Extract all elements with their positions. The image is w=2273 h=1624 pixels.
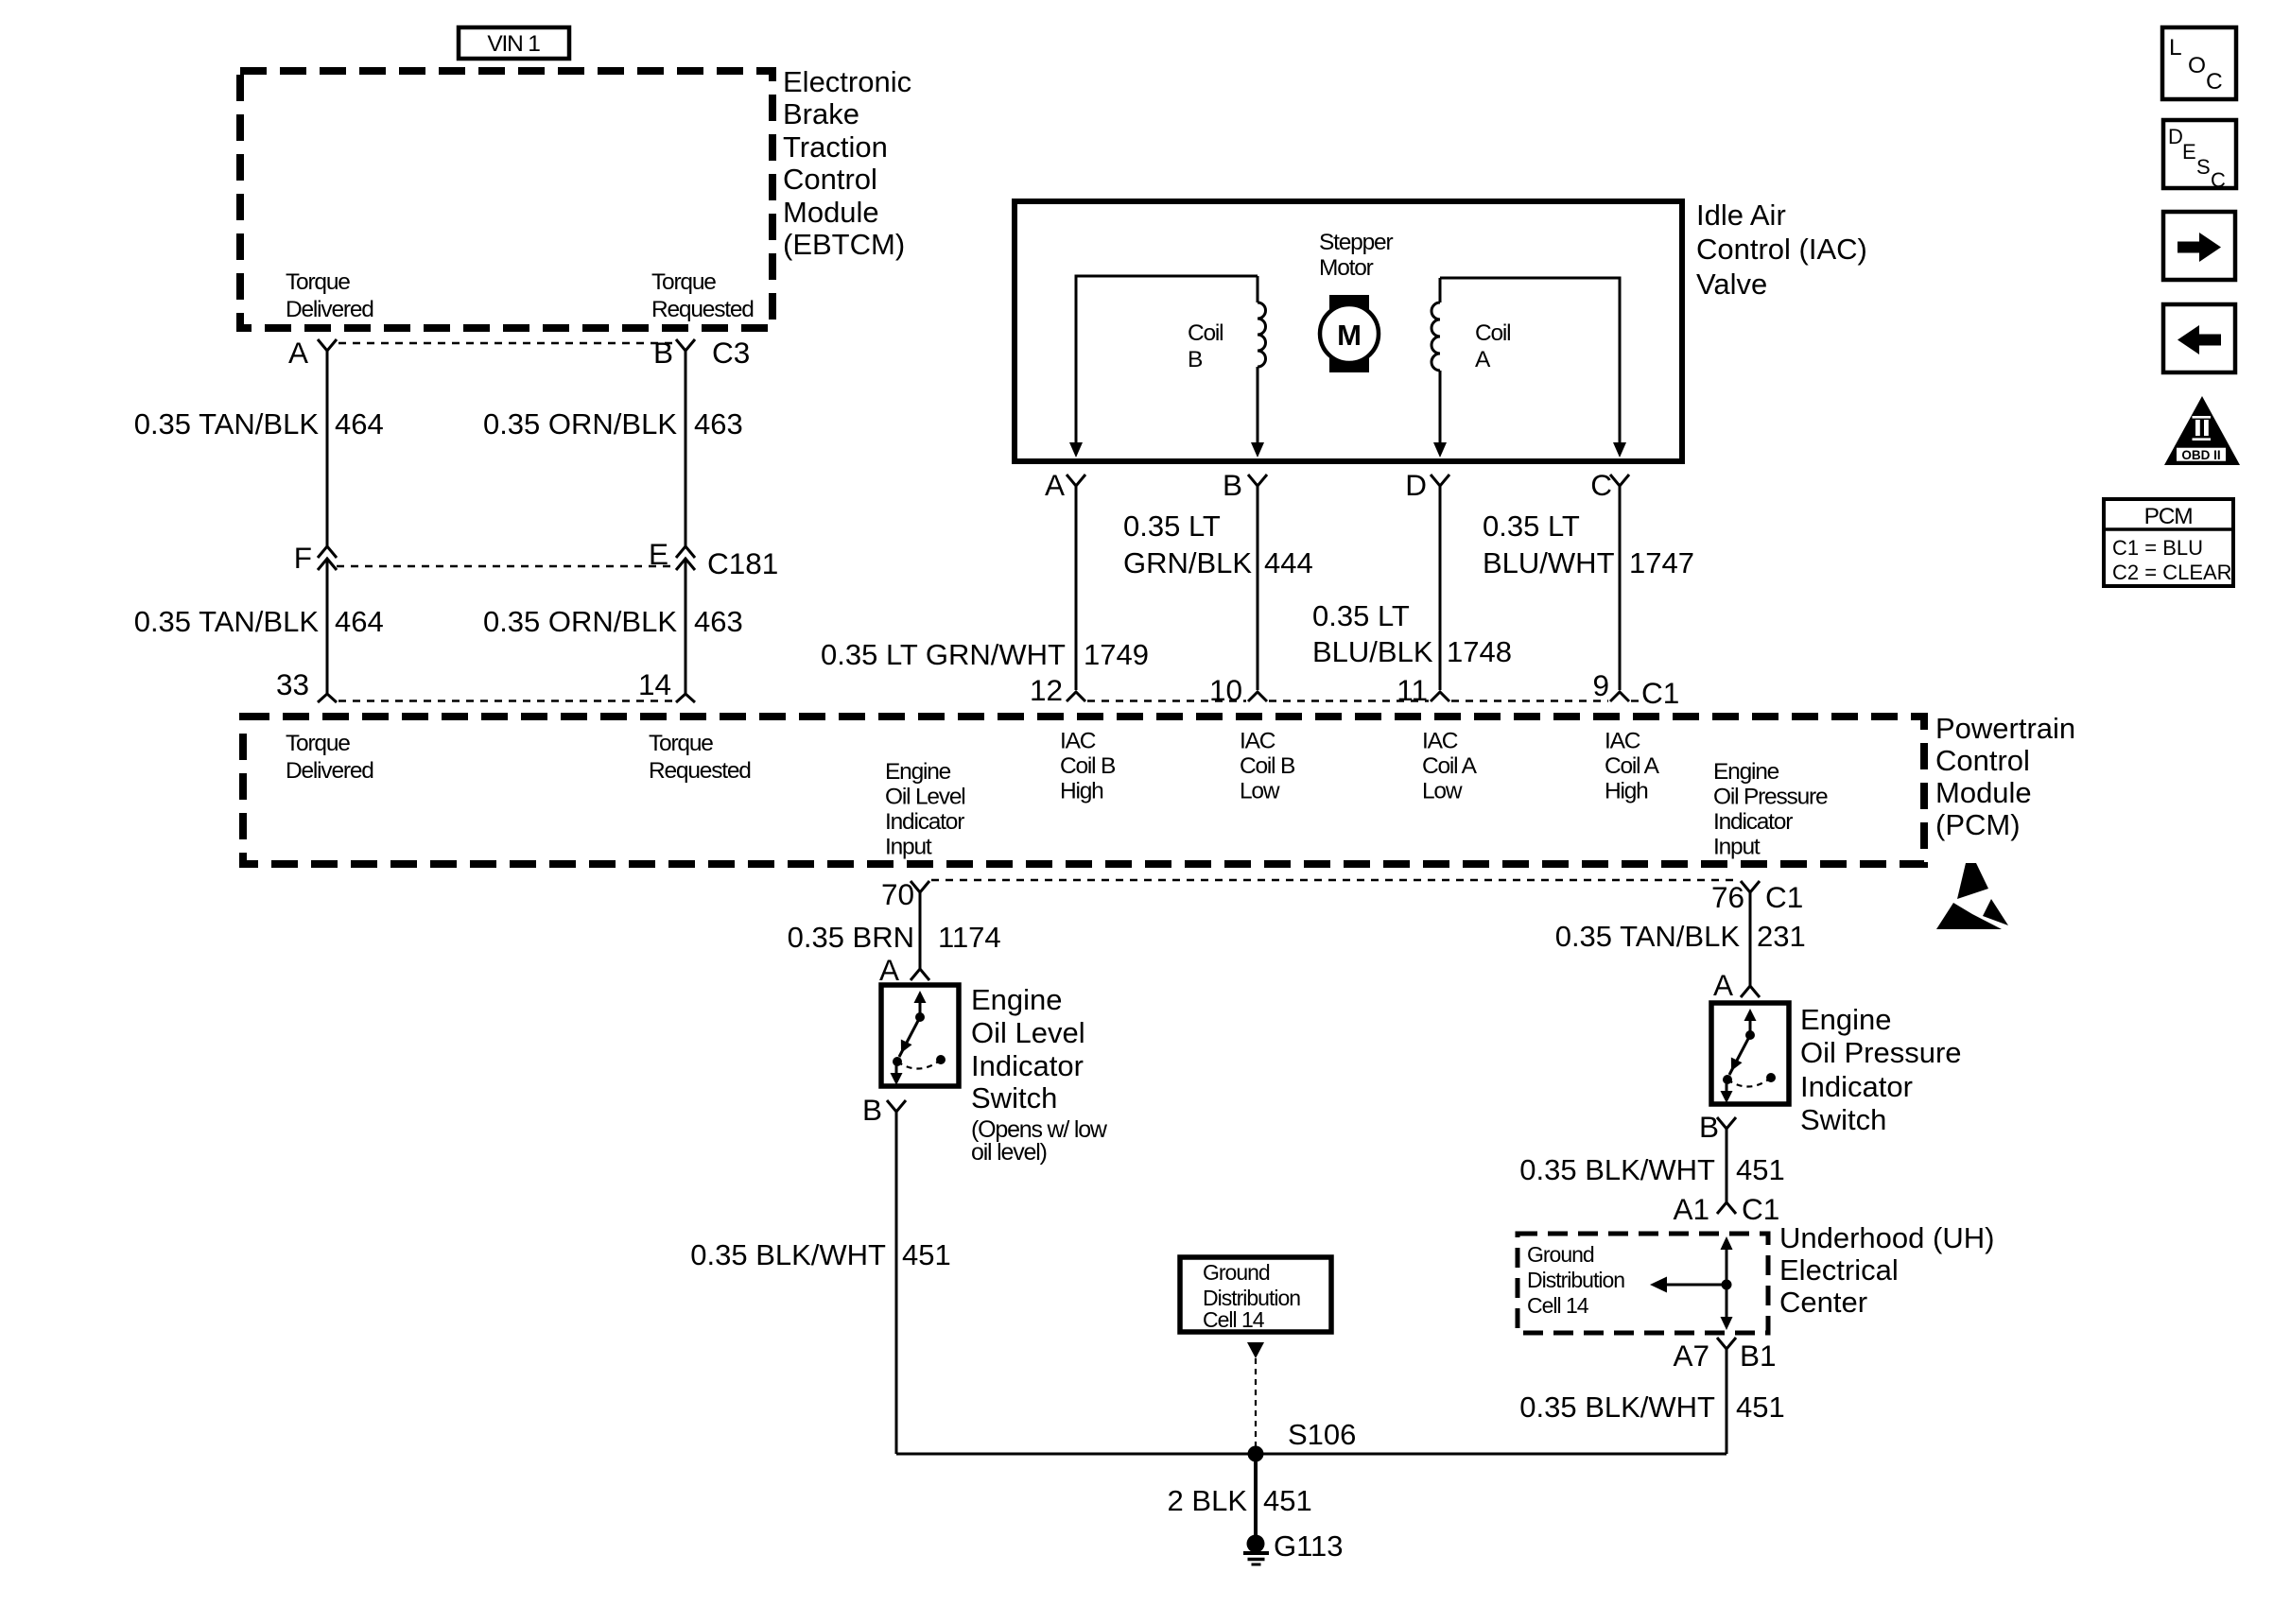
svg-text:Coil: Coil [1188,320,1223,346]
svg-text:463: 463 [694,605,743,638]
wire 451 from left switch [895,1112,898,1454]
svg-text:Module: Module [1935,776,2032,809]
svg-text:Coil B: Coil B [1240,753,1295,779]
svg-text:Torque: Torque [649,731,713,756]
svg-text:Ground: Ground [1203,1260,1270,1285]
svg-text:IAC: IAC [1605,729,1640,754]
svg-text:Input: Input [1713,835,1761,860]
svg-text:C1: C1 [1765,880,1803,914]
svg-text:C: C [2206,69,2222,95]
svg-text:10: 10 [1209,673,1242,707]
PCM C1 connector face line [931,879,1739,881]
wire IAC A to PCM 12 [1075,486,1078,690]
svg-text:451: 451 [1736,1391,1785,1424]
PCM pin 14 connector [638,667,695,702]
svg-text:Requested: Requested [651,297,754,322]
svg-text:1748: 1748 [1447,635,1512,668]
svg-text:Switch: Switch [971,1081,1057,1114]
wire label 0.35 LT GRN/WHT 1749 [821,638,1149,671]
svg-text:M: M [1337,319,1362,352]
PCM pin 12 connector [1030,673,1085,707]
svg-text:A: A [879,953,899,987]
svg-text:Engine: Engine [971,983,1063,1016]
svg-text:1747: 1747 [1629,546,1694,579]
svg-text:B: B [1188,347,1203,372]
svg-text:C: C [1590,468,1612,502]
PCM label [1935,712,2075,841]
svg-text:High: High [1060,779,1103,804]
svg-text:VIN 1: VIN 1 [487,31,540,57]
ESD sensitive symbol [1936,863,2008,929]
svg-text:33: 33 [276,667,309,701]
svg-text:Torque: Torque [651,269,716,295]
inline connector C181 pin E [649,537,778,580]
PCM module dashed box [243,717,1924,864]
svg-text:C3: C3 [712,336,750,370]
svg-text:Indicator: Indicator [1713,809,1793,835]
EBTCM pin function label Torque Requested [651,269,754,322]
wire 463 upper segment [685,351,687,546]
wire 1174 [919,892,922,969]
svg-text:11: 11 [1397,673,1428,707]
PCM pin label IAC Coil B Low [1240,729,1295,804]
wire label 0.35 BLK/WHT 451 right upper [1519,1153,1784,1186]
wire 463 lower segment [685,559,687,694]
svg-text:Input: Input [885,835,932,860]
arrow from ground distribution box [1247,1342,1264,1358]
wire label 0.35 LT BLU/WHT 1747 [1483,510,1694,579]
EBTCM pin function label Torque Delivered [286,269,373,322]
svg-text:Electrical: Electrical [1779,1253,1899,1287]
svg-text:IAC: IAC [1422,729,1458,754]
Stepper Motor label [1319,230,1393,281]
wire 451 from right switch [1726,1129,1728,1202]
svg-text:0.35 TAN/BLK: 0.35 TAN/BLK [134,605,320,638]
svg-text:Stepper: Stepper [1319,230,1393,255]
svg-text:Engine: Engine [885,759,951,785]
svg-text:A: A [1713,968,1733,1002]
svg-text:Cell 14: Cell 14 [1203,1307,1265,1332]
svg-text:G113: G113 [1274,1529,1344,1563]
switch B pin connector left [862,1093,906,1127]
svg-text:B: B [1699,1110,1719,1144]
svg-text:Delivered: Delivered [286,297,373,322]
UH electrical center pin A1 C1 connector [1673,1192,1779,1226]
svg-text:Motor: Motor [1319,255,1374,281]
svg-text:C1: C1 [1641,676,1679,710]
switch label Engine Oil Level Indicator Switch [971,983,1085,1114]
svg-text:C2 = CLEAR: C2 = CLEAR [2112,561,2232,584]
svg-text:Control (IAC): Control (IAC) [1696,233,1867,266]
inline connector C181 pin F [294,541,337,575]
svg-text:Indicator: Indicator [1800,1070,1913,1103]
svg-text:S106: S106 [1288,1418,1356,1451]
wire IAC C to PCM 9 [1619,486,1622,690]
ground G113 [1243,1529,1344,1564]
svg-text:C181: C181 [707,546,778,580]
splice S106 [1248,1418,1357,1462]
forward arrow legend box [2163,212,2235,280]
svg-text:PCM: PCM [2144,504,2193,529]
ground bus wire 451 [896,1453,1726,1456]
svg-text:0.35 TAN/BLK: 0.35 TAN/BLK [1555,920,1741,953]
svg-text:463: 463 [694,407,743,441]
svg-text:0.35 TAN/BLK: 0.35 TAN/BLK [134,407,320,441]
svg-text:C1: C1 [1742,1192,1779,1226]
ground distribution cell 14 box [1180,1257,1331,1332]
svg-text:Distribution: Distribution [1527,1268,1624,1292]
PCM pin label Engine Oil Pressure Indicator Input [1713,759,1828,860]
svg-text:451: 451 [1263,1484,1312,1517]
PCM pin 33 connector [276,667,337,702]
wire label 0.35 TAN/BLK 464 upper [134,407,384,441]
wire label 0.35 BLK/WHT 451 left [690,1238,950,1271]
UH electrical center pin A7 B1 connector [1673,1338,1776,1373]
Underhood electrical center dashed box [1518,1234,1768,1333]
svg-text:Oil Pressure: Oil Pressure [1800,1036,1962,1069]
svg-text:0.35 BLK/WHT: 0.35 BLK/WHT [1519,1153,1715,1186]
PCM pin label Engine Oil Level Indicator Input [885,759,965,860]
PCM pin 9 connector C1 [1592,668,1679,710]
svg-text:Brake: Brake [783,97,859,130]
svg-text:BLU/BLK: BLU/BLK [1312,635,1433,668]
svg-text:Torque: Torque [286,731,350,756]
svg-text:Control: Control [783,163,877,196]
svg-text:oil level): oil level) [971,1139,1047,1166]
svg-text:IAC: IAC [1240,729,1275,754]
svg-text:0.35 ORN/BLK: 0.35 ORN/BLK [483,407,677,441]
svg-text:Low: Low [1240,779,1280,804]
svg-text:Coil: Coil [1475,320,1510,346]
wire 2 BLK 451 [1254,1461,1258,1537]
IAC pin A connector [1045,468,1085,502]
wire label 0.35 LT GRN/BLK 444 [1123,510,1313,579]
svg-text:Coil A: Coil A [1422,753,1478,779]
switch A pin connector left [879,953,929,987]
svg-text:IAC: IAC [1060,729,1096,754]
dashed wire to S106 [1255,1358,1257,1446]
wire 464 upper segment [326,351,329,546]
svg-text:Engine: Engine [1713,759,1779,785]
svg-text:12: 12 [1030,673,1063,707]
svg-text:Delivered: Delivered [286,758,373,784]
svg-text:464: 464 [335,407,384,441]
wire IAC B to PCM 10 [1257,486,1259,690]
svg-text:76: 76 [1711,880,1744,914]
PCM connector face line [338,700,674,701]
svg-text:9: 9 [1592,668,1609,702]
svg-text:Ground: Ground [1527,1242,1594,1267]
svg-text:Module: Module [783,196,879,229]
PCM pin label IAC Coil A Low [1422,729,1478,804]
svg-text:0.35 BRN: 0.35 BRN [788,921,914,954]
LOC legend box [2162,27,2236,99]
PCM pin 76 connector C1 [1711,880,1803,914]
svg-text:F: F [294,541,312,575]
svg-text:0.35 ORN/BLK: 0.35 ORN/BLK [483,605,677,638]
svg-text:B: B [653,336,673,370]
IAC pin B connector [1223,468,1267,502]
svg-text:Center: Center [1779,1286,1867,1319]
svg-text:D: D [2168,125,2183,148]
PCM pin 10 connector [1209,673,1267,707]
Idle Air Control valve box [1015,201,1682,461]
svg-text:Underhood (UH): Underhood (UH) [1779,1221,1994,1254]
svg-text:High: High [1605,779,1648,804]
svg-text:A1: A1 [1673,1192,1709,1226]
wire IAC D to PCM 11 [1439,486,1442,690]
switch A pin connector right [1713,968,1760,1002]
PCM pin label Torque Delivered [286,731,373,784]
svg-text:2 BLK: 2 BLK [1168,1484,1248,1517]
svg-text:14: 14 [638,667,671,701]
IAC pin C connector [1590,468,1629,502]
EBTCM label [783,65,911,261]
VIN 1 tag box [459,27,569,59]
svg-text:E: E [2182,140,2196,164]
svg-text:451: 451 [902,1238,951,1271]
coil A winding [1431,278,1626,458]
wire 451 below UH center [1726,1349,1728,1454]
svg-text:451: 451 [1736,1153,1785,1186]
svg-text:Electronic: Electronic [783,65,911,98]
wire label 0.35 LT BLU/BLK 1748 [1312,599,1512,668]
stepper motor M symbol [1320,295,1379,372]
svg-text:Valve: Valve [1696,268,1767,301]
svg-text:Low: Low [1422,779,1463,804]
EBTCM module dashed box [240,71,772,328]
wire label 0.35 BLK/WHT 451 right lower [1519,1391,1784,1424]
svg-text:A: A [1045,468,1065,502]
connector face line C181 [337,565,676,567]
svg-text:A: A [288,336,308,370]
IAC valve label [1696,199,1867,301]
svg-text:0.35 LT GRN/WHT: 0.35 LT GRN/WHT [821,638,1066,671]
svg-text:444: 444 [1264,546,1313,579]
svg-text:Engine: Engine [1800,1003,1892,1036]
svg-text:O: O [2188,53,2205,78]
svg-text:(EBTCM): (EBTCM) [783,228,905,261]
svg-text:Traction: Traction [783,130,888,164]
engine oil pressure indicator switch S2 [1711,1003,1789,1104]
svg-text:231: 231 [1757,920,1806,953]
svg-text:Requested: Requested [649,758,751,784]
svg-text:0.35 LT: 0.35 LT [1483,510,1580,543]
svg-text:Idle Air: Idle Air [1696,199,1786,232]
svg-text:C: C [2211,168,2226,192]
svg-text:0.35 BLK/WHT: 0.35 BLK/WHT [690,1238,886,1271]
wire label 2 BLK 451 [1168,1484,1312,1517]
svg-text:Torque: Torque [286,269,350,295]
PCM pin label IAC Coil B High [1060,729,1116,804]
svg-text:BLU/WHT: BLU/WHT [1483,546,1615,579]
svg-text:Cell 14: Cell 14 [1527,1293,1589,1318]
wire label 0.35 ORN/BLK 463 upper [483,407,743,441]
PCM pin label Torque Requested [649,731,751,784]
svg-text:D: D [1405,468,1427,502]
svg-text:L: L [2169,35,2181,60]
svg-text:0.35 LT: 0.35 LT [1123,510,1221,543]
svg-text:Control: Control [1935,744,2030,777]
pin B connector of EBTCM, C3 [653,336,750,370]
wire label 0.35 BRN 1174 [788,921,1001,954]
OBD II symbol [2164,396,2240,465]
svg-text:B1: B1 [1740,1339,1777,1373]
svg-text:OBD II: OBD II [2181,448,2220,462]
svg-text:S: S [2196,155,2211,179]
switch label Engine Oil Pressure Indicator Switch [1800,1003,1962,1136]
PCM pin 70 connector [881,877,929,911]
svg-text:464: 464 [335,605,384,638]
PCM pin label IAC Coil A High [1605,729,1660,804]
coil B winding [1069,276,1266,458]
svg-text:Coil A: Coil A [1605,753,1660,779]
internal wire of UH center with arrows [1650,1236,1733,1330]
IAC pin D connector [1405,468,1449,502]
wire label 0.35 TAN/BLK 464 lower [134,605,384,638]
svg-text:Oil Pressure: Oil Pressure [1713,785,1828,810]
svg-text:1174: 1174 [938,921,1001,954]
DESC legend box [2163,120,2236,192]
svg-text:B: B [862,1093,882,1127]
wire label 0.35 ORN/BLK 463 lower [483,605,743,638]
svg-text:0.35 LT: 0.35 LT [1312,599,1410,632]
ground distribution reference label in UH box [1527,1242,1624,1318]
svg-text:B: B [1223,468,1242,502]
svg-text:Indicator: Indicator [971,1049,1084,1082]
svg-text:A7: A7 [1673,1339,1709,1373]
engine oil level indicator switch S1 [881,985,959,1086]
wire label 0.35 TAN/BLK 231 [1555,920,1806,953]
svg-text:Switch: Switch [1800,1103,1886,1136]
PCM connector legend box [2104,499,2233,586]
svg-text:Coil B: Coil B [1060,753,1116,779]
svg-text:0.35 BLK/WHT: 0.35 BLK/WHT [1519,1391,1715,1424]
svg-text:Powertrain: Powertrain [1935,712,2075,745]
pin A connector of EBTCM [288,336,337,370]
svg-text:A: A [1475,347,1491,372]
svg-text:GRN/BLK: GRN/BLK [1123,546,1252,579]
svg-text:C1 = BLU: C1 = BLU [2112,536,2203,560]
svg-text:(PCM): (PCM) [1935,808,2021,841]
wire 231 [1749,892,1752,986]
svg-text:Oil Level: Oil Level [885,785,965,810]
UH electrical center label [1779,1221,1994,1319]
svg-text:70: 70 [881,877,914,911]
switch B pin connector right [1699,1110,1736,1144]
backward arrow legend box [2163,304,2235,372]
svg-text:Indicator: Indicator [885,809,964,835]
wire 464 lower segment [326,559,329,694]
connector face line under EBTCM [338,342,674,344]
svg-text:Oil Level: Oil Level [971,1016,1085,1049]
svg-text:1749: 1749 [1084,638,1149,671]
PCM pin 11 connector [1397,673,1449,707]
